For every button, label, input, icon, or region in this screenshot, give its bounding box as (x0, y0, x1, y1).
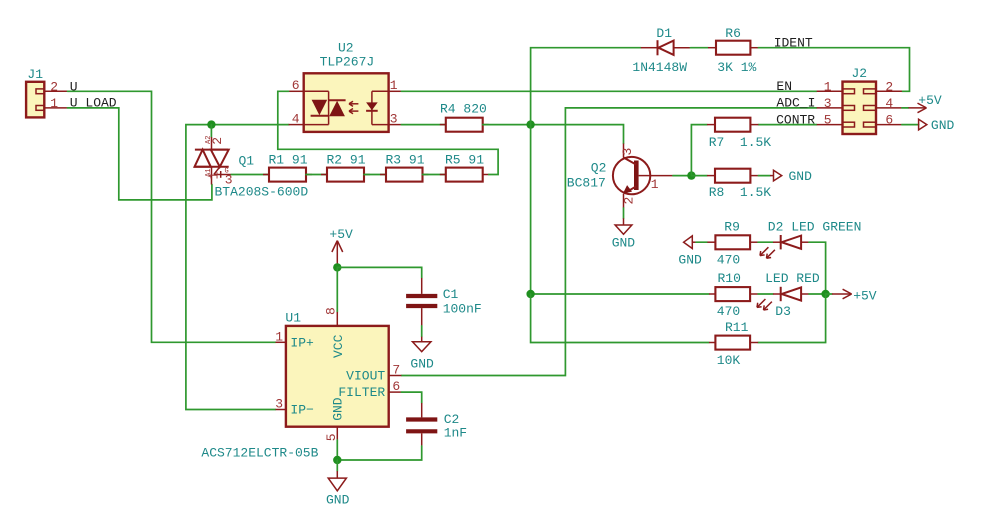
svg-text:1: 1 (50, 96, 58, 111)
wire U_LOAD: J1.1 to Q1 A1 (68, 108, 212, 200)
J1 pin 2 (44, 79, 67, 94)
svg-text:ACS712ELCTR-05B: ACS712ELCTR-05B (201, 446, 318, 461)
U2 pin 1 (389, 78, 402, 93)
svg-text:R4 820: R4 820 (440, 102, 487, 117)
svg-text:R2 91: R2 91 (327, 153, 366, 168)
svg-text:D1: D1 (656, 26, 672, 41)
svg-text:470: 470 (717, 304, 740, 319)
J1 pin 1 (44, 96, 67, 111)
wire A2 node to U2 pin4 (211, 124, 289, 126)
wire D2 to +5V rail (809, 242, 826, 294)
resistor R7 1.5K (707, 118, 771, 150)
wire R3-R5 (423, 174, 446, 176)
wire Q2 emitter to GND (623, 208, 625, 218)
wire R7 to J2 pin5 (758, 124, 816, 126)
wire R4 node down to R11 (531, 294, 709, 343)
svg-text:IP+: IP+ (290, 335, 314, 350)
wire Q1 gate to R1 (231, 174, 269, 176)
svg-text:Q2: Q2 (591, 161, 607, 176)
capacitor C1 100nF (406, 278, 482, 326)
svg-text:7: 7 (392, 363, 400, 378)
wire U: J1.2 to U1 IP+ (68, 91, 276, 342)
junction at x531 R10 branch (526, 290, 534, 298)
wire R10 to D3 (758, 293, 773, 295)
U2 internal LED (366, 91, 389, 124)
U2 pin 6 (289, 78, 304, 93)
wire EN row: U2 pin1 to J2 pin1 (401, 90, 816, 92)
resistor R2 91 (321, 153, 370, 182)
wire base node to R7 (691, 125, 707, 176)
svg-text:U2: U2 (338, 41, 354, 56)
svg-text:1: 1 (824, 79, 832, 94)
U2 pin 4 (289, 112, 304, 127)
wire R4 node down to R10/R11 (531, 125, 709, 294)
junction +5V LED node (821, 290, 829, 298)
junction A2 node (207, 120, 215, 128)
svg-text:GND: GND (789, 169, 813, 184)
wire J2 pin6 to GND (902, 124, 919, 126)
svg-text:LED RED: LED RED (765, 271, 820, 286)
svg-text:10K: 10K (717, 353, 741, 368)
resistor R10 470 (709, 271, 758, 319)
svg-text:6: 6 (392, 379, 400, 394)
wire D1 to R6 (690, 47, 708, 49)
svg-text:2: 2 (885, 79, 893, 94)
wire R11 up to +5V junction (758, 294, 826, 343)
wire R8 to GND (758, 175, 770, 177)
svg-text:+5V: +5V (329, 227, 353, 242)
wire IDENT to J2 pin2 (758, 48, 909, 92)
wire FILTER to C2 (401, 392, 421, 403)
svg-text:5: 5 (824, 113, 832, 128)
svg-text:D2 LED GREEN: D2 LED GREEN (768, 220, 862, 235)
ground GND at R9 (678, 236, 702, 268)
power +5V at J2 (909, 93, 942, 113)
svg-text:4: 4 (885, 96, 893, 111)
svg-text:470: 470 (717, 253, 740, 268)
triac Q1 (194, 137, 308, 200)
wire IP- : A2 node to U1 IP- (186, 125, 276, 410)
svg-text:1: 1 (275, 329, 283, 344)
resistor R6 3K 1% (708, 26, 758, 75)
svg-text:6: 6 (885, 113, 893, 128)
svg-text:R9: R9 (724, 220, 740, 235)
svg-text:2: 2 (210, 137, 225, 145)
svg-text:+5V: +5V (853, 288, 877, 303)
U1 pin 1 IP+ (275, 329, 314, 350)
svg-text:ADC_I: ADC_I (776, 96, 815, 111)
LED D2 GREEN (760, 220, 861, 259)
ground GND below U1 (326, 471, 350, 508)
svg-text:GND: GND (331, 397, 346, 421)
U1 pin 5 GND (324, 397, 346, 441)
ground GND at Q2 emitter (612, 218, 636, 250)
ground GND below C1 (410, 337, 434, 372)
wire Q2 base to junction (673, 175, 691, 177)
wire U2 pin3 to R4 (401, 124, 445, 126)
wire R2-R3 (364, 174, 386, 176)
svg-text:2: 2 (622, 197, 637, 205)
svg-text:100nF: 100nF (443, 302, 482, 317)
ground GND at J2 (919, 118, 955, 133)
U1 pin 7 VIOUT (346, 363, 401, 384)
IC U1 ACS712 (201, 310, 388, 460)
svg-text:D3: D3 (775, 304, 791, 319)
U1 pin 6 FILTER (338, 379, 401, 400)
wire +5V junction to C1 (337, 267, 421, 278)
wire C1 to GND (421, 326, 423, 337)
svg-text:BC817: BC817 (567, 175, 606, 190)
wire IDENT riser from R4 node (531, 48, 641, 125)
svg-text:R8 1.5K: R8 1.5K (709, 185, 772, 200)
U1 pin 8 VCC (324, 307, 346, 358)
U2 internal emitter arrows (349, 101, 358, 114)
svg-text:2: 2 (50, 79, 58, 94)
capacitor C2 1nF (406, 403, 467, 446)
svg-text:R1 91: R1 91 (269, 153, 308, 168)
svg-text:3: 3 (620, 148, 635, 156)
resistor R9 470 (707, 220, 758, 268)
wire ADC_I / VIOUT run (401, 108, 816, 376)
resistor R8 1.5K (707, 169, 771, 200)
wire +5V junction to VCC pin8 (336, 267, 338, 312)
svg-text:U1: U1 (285, 310, 301, 325)
Q1 pin 1 (A1) (205, 169, 222, 180)
J2 pin 2 (876, 79, 902, 94)
U1 pin 3 IP- (275, 397, 314, 418)
svg-text:VIOUT: VIOUT (346, 369, 385, 384)
resistor R5 91 (440, 153, 489, 182)
wire A2 junction down to Q1 (210, 125, 212, 137)
svg-text:GND: GND (410, 357, 434, 372)
connector J1 (26, 67, 44, 117)
svg-text:3: 3 (824, 96, 832, 111)
wire C2 to GND junction (337, 446, 421, 460)
junction R4 / IDENT / R10 node (526, 120, 534, 128)
svg-text:IP−: IP− (290, 403, 314, 418)
svg-text:1nF: 1nF (444, 425, 467, 440)
svg-text:+5V: +5V (918, 93, 942, 108)
junction base node (687, 171, 695, 179)
svg-text:1: 1 (390, 78, 398, 93)
svg-text:VCC: VCC (331, 334, 346, 358)
LED D3 RED (757, 271, 820, 319)
svg-text:Q1: Q1 (239, 154, 255, 169)
resistor R1 91 (263, 153, 312, 182)
wire R9 to D2 (758, 241, 773, 243)
svg-text:GND: GND (326, 493, 350, 508)
junction +5V / VCC / C1 (333, 263, 341, 271)
svg-text:R10: R10 (718, 271, 741, 286)
power +5V at LED rail (826, 288, 877, 303)
svg-text:4: 4 (292, 112, 300, 127)
power +5V above U1 (329, 227, 353, 266)
ground GND at R8 (770, 169, 812, 184)
svg-text:8: 8 (324, 307, 339, 315)
svg-text:R3 91: R3 91 (386, 153, 425, 168)
svg-text:3: 3 (275, 397, 283, 412)
wire base node to R8 (691, 175, 707, 177)
wire R5 to U2 pin6 loop (278, 91, 498, 174)
svg-text:J1: J1 (27, 67, 43, 82)
resistor R11 10K (709, 320, 758, 368)
diode D1 1N4148W (632, 26, 690, 75)
wire R4 to Q2 collector (483, 125, 624, 144)
wire GND to R9 (696, 241, 707, 243)
svg-text:1: 1 (206, 172, 221, 180)
wire junction to GND symbol (336, 460, 338, 471)
U2 pin 3 (389, 112, 402, 127)
transistor Q2 BC817 (567, 144, 673, 209)
svg-text:GND: GND (931, 118, 955, 133)
svg-text:GND: GND (612, 235, 636, 250)
svg-text:EN: EN (776, 79, 792, 94)
svg-text:R7 1.5K: R7 1.5K (709, 135, 772, 150)
svg-text:C1: C1 (443, 287, 459, 302)
svg-text:R6: R6 (725, 26, 741, 41)
svg-text:1N4148W: 1N4148W (632, 60, 687, 75)
resistor R3 91 (380, 153, 429, 182)
svg-text:6: 6 (292, 78, 300, 93)
junction GND node below U1 (333, 456, 341, 464)
resistor R4 820 (440, 102, 489, 132)
connector J2 (843, 66, 877, 134)
svg-text:3: 3 (390, 112, 398, 127)
svg-text:R5 91: R5 91 (445, 153, 484, 168)
wire D3 to +5V junction (809, 293, 826, 295)
svg-text:R11: R11 (725, 320, 749, 335)
wire U1 GND pin to junction (336, 440, 338, 460)
svg-text:3K 1%: 3K 1% (717, 60, 756, 75)
U2 internal photo-triac (304, 91, 346, 124)
svg-text:TLP267J: TLP267J (320, 54, 375, 69)
wire J2 pin4 to +5V (902, 107, 909, 109)
J2 pin 5 (817, 113, 843, 128)
svg-text:J2: J2 (852, 66, 868, 81)
opto-coupler U2 (304, 41, 389, 132)
Q1 pin 3 (G) (225, 168, 233, 188)
J2 pin 1 (817, 79, 843, 94)
Q1 pin 2 (A2) (205, 136, 225, 145)
J2 pin 4 (876, 96, 902, 111)
svg-text:GND: GND (678, 253, 702, 268)
wire R1-R2 (306, 174, 327, 176)
J2 pin 3 (817, 96, 843, 111)
svg-text:1: 1 (651, 177, 659, 192)
J2 pin 6 (876, 113, 902, 128)
